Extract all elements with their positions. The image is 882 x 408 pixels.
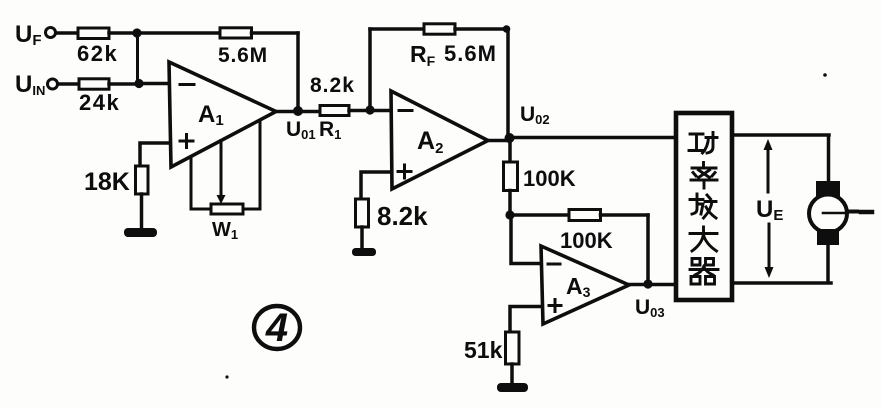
figure number 4 xyxy=(265,306,288,350)
svg-text:UIN: UIN xyxy=(15,71,45,98)
wire A1 noninverting input xyxy=(140,143,169,166)
label U03 xyxy=(635,296,665,320)
resistor R1 8.2k xyxy=(320,106,349,116)
node U03 xyxy=(643,279,652,288)
op-amp A1 xyxy=(169,62,276,167)
wire A2 output xyxy=(488,139,509,143)
hanzi lv (rate) xyxy=(691,163,717,189)
resistor 5.6M feedback A1 xyxy=(220,28,252,38)
wire RF loop top left xyxy=(370,27,424,31)
motor top brush xyxy=(816,181,840,197)
resistor 100k vertical xyxy=(504,162,518,191)
wire 100k to node C xyxy=(508,191,512,216)
node C junction xyxy=(505,210,514,219)
svg-text:UF: UF xyxy=(15,21,42,49)
svg-text:U01: U01 xyxy=(286,118,316,142)
label 5.6M A1 xyxy=(218,44,268,67)
wire A3 noninverting input xyxy=(510,307,541,333)
hanzi qi (device) xyxy=(690,259,718,285)
label RF xyxy=(410,41,436,69)
label 100K feedback xyxy=(560,228,613,253)
wire 8.2k to ground xyxy=(360,227,364,249)
svg-text:U03: U03 xyxy=(635,296,665,320)
hanzi fang (amplify-1) xyxy=(690,194,716,218)
label 62k xyxy=(77,41,118,66)
hanzi da (amplify-2) xyxy=(690,227,717,251)
resistor 8.2k ground A2 xyxy=(356,199,369,227)
wire U02 to power amp xyxy=(509,136,676,140)
wire power amp bottom output xyxy=(732,245,831,284)
svg-text:5.6M: 5.6M xyxy=(444,41,497,66)
terminal UF xyxy=(46,28,56,38)
wire power amp top output xyxy=(732,135,829,182)
wire feedback vertical to U01 xyxy=(296,33,300,111)
ground A3 xyxy=(497,383,528,392)
svg-text:18K: 18K xyxy=(84,168,130,196)
label 51k xyxy=(464,337,503,363)
label UIN xyxy=(15,71,45,98)
motor shaft marks xyxy=(849,210,872,215)
svg-text:8.2k: 8.2k xyxy=(310,74,355,97)
label 8.2k series xyxy=(310,74,355,97)
svg-text:W1: W1 xyxy=(212,219,238,242)
resistor 100K feedback A3 xyxy=(569,210,601,221)
resistor 62k xyxy=(78,28,109,39)
wire UF to 62k xyxy=(56,31,78,35)
svg-text:62k: 62k xyxy=(77,41,118,66)
svg-text:4: 4 xyxy=(265,306,288,350)
arrow UE top xyxy=(764,139,773,192)
wire node A to node B xyxy=(136,33,139,84)
resistor 51k xyxy=(506,332,520,364)
svg-text:R1: R1 xyxy=(319,118,341,142)
wire U03 to power amp xyxy=(629,283,676,287)
wire node B to A1 inverting input xyxy=(139,82,169,86)
motor M1 xyxy=(809,195,847,233)
svg-text:RF: RF xyxy=(410,41,436,69)
wire W1 right leg xyxy=(243,122,260,209)
label 8.2k ground xyxy=(377,201,428,231)
wire W1 left leg xyxy=(191,157,211,210)
node U01 xyxy=(293,106,303,116)
node U02 xyxy=(505,133,515,143)
node A2 inverting junction xyxy=(365,105,374,114)
label UE xyxy=(756,196,783,224)
svg-text:UE: UE xyxy=(756,196,783,224)
resistor RF 5.6M xyxy=(424,24,455,34)
label 5.6M RF xyxy=(444,41,497,66)
power amplifier block xyxy=(676,113,732,300)
wire node A to 5.6M xyxy=(137,31,220,35)
ground A2 xyxy=(352,248,376,256)
wire R1 to A2 inverting input xyxy=(349,109,391,113)
potentiometer W1 xyxy=(211,204,243,214)
terminal UIN xyxy=(48,79,58,89)
figure number circle 4 xyxy=(254,306,300,349)
wire 18K to ground xyxy=(140,194,144,228)
wire 24k to node B xyxy=(109,82,139,86)
resistor 18K xyxy=(136,166,149,194)
node A junction xyxy=(132,28,141,37)
wire RF loop left vertical xyxy=(368,29,372,110)
svg-text:24k: 24k xyxy=(79,90,120,115)
svg-text:8.2k: 8.2k xyxy=(377,201,428,231)
wire U02 down xyxy=(508,138,512,162)
arrow UE bottom xyxy=(765,224,774,278)
wire RF loop top right xyxy=(455,27,508,31)
op-amp A2 xyxy=(391,91,488,189)
ink speck xyxy=(225,375,228,378)
label A2 xyxy=(417,127,443,157)
label R1 xyxy=(319,118,341,142)
wire W1 wiper arrow xyxy=(217,141,226,205)
ground A1 xyxy=(124,228,157,237)
label 24k xyxy=(79,90,120,115)
wire 5.6M to corner xyxy=(252,31,299,35)
motor bottom brush xyxy=(817,229,839,245)
node RF corner xyxy=(503,25,511,33)
label W1 xyxy=(212,219,238,242)
svg-text:51k: 51k xyxy=(464,337,503,363)
label U02 xyxy=(520,103,550,127)
wire RF loop right vertical xyxy=(506,29,510,138)
node B junction xyxy=(134,79,143,88)
label 18K xyxy=(84,168,130,196)
wire 100K feedback right xyxy=(601,213,649,217)
wire 62k to node A xyxy=(109,31,137,35)
wire A2 noninverting input xyxy=(361,172,391,199)
wire node C down to A3 inverting xyxy=(511,215,541,264)
svg-text:100K: 100K xyxy=(560,228,613,253)
label A1 xyxy=(198,101,224,129)
wire feedback vertical to U03 xyxy=(646,215,650,284)
wire A1 output xyxy=(276,110,320,114)
wire node C to 100K feedback xyxy=(510,213,569,217)
hanzi gong (power) xyxy=(689,133,717,154)
label A3 xyxy=(566,273,591,300)
svg-text:U02: U02 xyxy=(520,103,550,127)
svg-text:5.6M: 5.6M xyxy=(218,44,268,67)
wire UIN to 24k xyxy=(58,82,79,86)
label UF xyxy=(15,21,42,49)
wire 51k to ground xyxy=(510,364,514,384)
label 100k vertical xyxy=(523,166,576,191)
ink speck xyxy=(823,73,827,77)
label U01 xyxy=(286,118,316,142)
svg-text:100K: 100K xyxy=(523,166,576,191)
op-amp A3 xyxy=(541,246,629,324)
resistor 24k xyxy=(79,79,109,89)
